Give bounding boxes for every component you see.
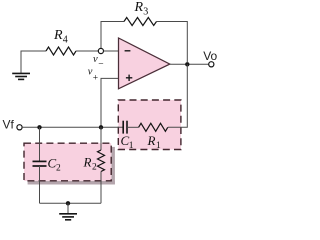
wire: bottom rail bbox=[40, 202, 102, 204]
op-amp minus pin mark bbox=[125, 50, 131, 52]
op-amp U1 bbox=[119, 38, 170, 89]
resistor R4 bbox=[46, 47, 76, 55]
terminal Vo bbox=[209, 62, 214, 67]
junction: output node bbox=[185, 62, 189, 66]
svg-text:3: 3 bbox=[143, 7, 148, 18]
resistor R1 bbox=[139, 123, 168, 131]
wire: C1 to R1 bbox=[127, 126, 139, 128]
svg-text:2: 2 bbox=[92, 162, 97, 172]
terminal Vf bbox=[17, 125, 22, 130]
wire: R2 branch down bbox=[100, 127, 102, 150]
svg-text:1: 1 bbox=[156, 141, 161, 151]
junction: bottom rail node bbox=[66, 201, 70, 205]
capacitor C1 bbox=[123, 121, 127, 134]
wire: R4 to v- node bbox=[76, 50, 98, 52]
ground (bottom) bbox=[59, 214, 77, 220]
wire: R3 to output column bbox=[157, 22, 188, 63]
op-amp plus pin mark bbox=[126, 75, 132, 81]
svg-text:−: − bbox=[98, 60, 103, 70]
ground (left) bbox=[12, 73, 30, 79]
highlight box C1/R1 bbox=[118, 100, 181, 150]
svg-text:R: R bbox=[134, 0, 144, 15]
svg-text:Vo: Vo bbox=[203, 49, 217, 63]
wire: C2 to bottom rail bbox=[39, 166, 41, 203]
svg-text:+: + bbox=[93, 74, 98, 84]
resistor R3 bbox=[124, 18, 157, 26]
capacitor C2 bbox=[33, 161, 47, 166]
svg-text:Vf: Vf bbox=[3, 118, 15, 132]
box shadow (C2 R2 network) bbox=[28, 147, 115, 185]
svg-text:R: R bbox=[83, 154, 92, 169]
svg-text:4: 4 bbox=[63, 35, 68, 46]
wire: ground stem to R4 bbox=[21, 51, 46, 73]
node v- (open circle) bbox=[98, 48, 103, 53]
wire: feedback R3 loop bbox=[101, 22, 124, 49]
wire: v+ riser and input bbox=[101, 78, 119, 127]
highlight box C2/R2 bbox=[24, 143, 111, 181]
wire: output column down to R1 bbox=[168, 64, 187, 127]
junction: v+/R2 node bbox=[99, 125, 103, 129]
svg-text:2: 2 bbox=[56, 163, 61, 173]
wire: R2 to bottom rail bbox=[100, 172, 102, 204]
wire: C2 branch down bbox=[39, 127, 41, 161]
svg-text:1: 1 bbox=[129, 141, 134, 151]
svg-text:R: R bbox=[53, 28, 63, 43]
resistor R2 bbox=[98, 150, 105, 172]
wire: op-amp output to Vo bbox=[170, 63, 209, 65]
wire: Vf to C1 bbox=[22, 126, 123, 128]
svg-text:R: R bbox=[147, 133, 156, 148]
wire: ground stem (bottom) bbox=[67, 203, 69, 213]
wire: v- node to op-amp bbox=[104, 50, 119, 52]
junction: Vf/C2 node bbox=[37, 125, 41, 129]
